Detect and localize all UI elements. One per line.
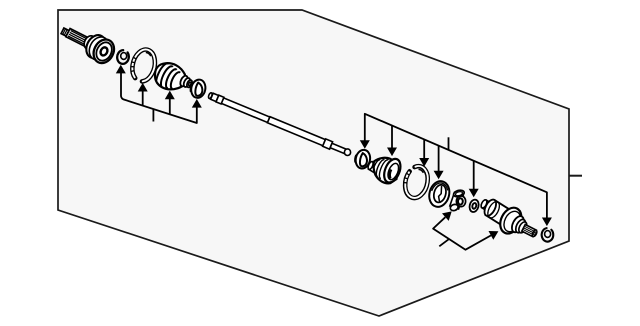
- boot band A (large): [130, 50, 155, 82]
- arrow to boot A: [165, 91, 175, 114]
- stopper ring: [426, 179, 452, 209]
- left bracket: [121, 73, 197, 123]
- arrow to boot band C: [360, 140, 370, 149]
- border box: [58, 10, 569, 316]
- arrow to snap ring: [116, 65, 126, 74]
- arrow to washer: [469, 161, 479, 198]
- outboard joint neck: [82, 34, 98, 51]
- spider set piece: [449, 189, 465, 212]
- outboard joint splined shaft: [66, 29, 93, 49]
- boot band D (large): [403, 166, 427, 198]
- set ring: [542, 228, 554, 242]
- arrow to set ring: [542, 218, 552, 227]
- boot band C (small): [354, 149, 372, 170]
- arrow to stopper ring: [434, 146, 444, 180]
- inboard joint: [480, 198, 538, 238]
- boot A (bellows): [155, 63, 193, 89]
- arrow to boot B: [387, 126, 397, 157]
- arrow to spider: [442, 211, 452, 221]
- outboard joint threaded tip: [61, 28, 71, 37]
- left bracket leader: [152, 109, 154, 122]
- arrow to boot band A: [138, 83, 148, 105]
- right edge tick: [569, 175, 582, 177]
- bottom bracket: [433, 217, 491, 250]
- boot band B (small): [190, 78, 208, 99]
- boot B (bellows): [367, 157, 404, 185]
- arrow to boot band B: [192, 99, 202, 108]
- driveshaft: [208, 92, 351, 155]
- washer: [468, 199, 480, 213]
- arrow to inboard joint: [489, 231, 499, 240]
- right bracket: [365, 114, 547, 218]
- bottom bracket leader: [439, 239, 449, 246]
- arrow to boot band D: [419, 139, 429, 166]
- outboard joint housing: [83, 32, 118, 67]
- snap ring: [117, 50, 129, 64]
- right bracket leader: [448, 137, 450, 150]
